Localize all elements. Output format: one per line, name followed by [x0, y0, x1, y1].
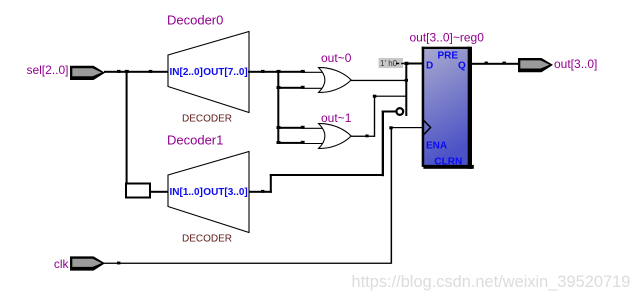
wire tick	[261, 190, 264, 193]
svg-text:out[3..0]~reg0: out[3..0]~reg0	[410, 31, 485, 45]
decoder U Decoder1	[168, 152, 249, 233]
wire out~1 top segment	[374, 96, 407, 97]
wire sel branch vertical	[126, 71, 128, 184]
svg-text:DECODER: DECODER	[182, 114, 232, 125]
wire sel to Decoder0	[104, 71, 168, 73]
junction branch3	[277, 126, 281, 129]
wire branch OR2 in2	[277, 142, 304, 144]
wire clk horizontal	[104, 263, 392, 264]
junction trunk top	[277, 70, 281, 73]
svg-text:IN[2..0]: IN[2..0]	[170, 67, 203, 78]
wire box to Decoder1	[151, 191, 168, 193]
wire clk to wedge	[390, 127, 423, 128]
svg-text:clk: clk	[54, 257, 70, 271]
wire out~1 riser	[374, 96, 375, 137]
svg-text:PRE: PRE	[438, 50, 459, 61]
constant 1'h0	[379, 58, 404, 68]
svg-text:ENA: ENA	[426, 140, 447, 151]
svg-text:1' h0: 1' h0	[380, 59, 398, 68]
svg-text:https://blog.csdn.net/weixin_3: https://blog.csdn.net/weixin_39520719	[352, 273, 631, 291]
bus merge ring	[396, 108, 403, 115]
input pin clk	[70, 256, 105, 270]
svg-text:out[3..0]: out[3..0]	[554, 57, 597, 71]
input pin sel[2..0]	[70, 66, 105, 80]
junction out~1 corner	[373, 95, 377, 98]
wire tick	[117, 262, 120, 265]
bus D wire to register	[405, 63, 422, 65]
bus horizontal to ring	[382, 111, 397, 113]
bus Decoder1 out riser	[382, 111, 384, 177]
svg-text:Q: Q	[458, 60, 466, 71]
junction clk corner	[389, 126, 392, 129]
wire branch OR2 in1	[277, 127, 304, 129]
junction D corner	[405, 62, 409, 65]
wire tick	[261, 70, 265, 73]
svg-text:OUT[7..0]: OUT[7..0]	[203, 67, 247, 78]
junction sel branch	[125, 70, 129, 73]
bus thick horizontal from Decoder1	[270, 174, 384, 176]
pin square OR1 in1	[301, 70, 305, 73]
wire clk riser	[391, 127, 393, 264]
wire out~0 to D trunk	[351, 80, 407, 81]
bus corner vertical	[270, 174, 272, 193]
output pin out[3..0]	[518, 58, 553, 72]
wire Q output	[471, 63, 519, 65]
svg-text:out~0: out~0	[321, 51, 352, 65]
or-gate out~0	[304, 68, 351, 93]
pin square OR2 in2	[301, 141, 305, 144]
wire out~1 segment	[351, 136, 375, 137]
register out[3..0]~reg0	[422, 47, 474, 169]
bus D trunk vertical	[405, 63, 407, 117]
svg-text:sel[2..0]: sel[2..0]	[26, 63, 68, 77]
wire tick	[485, 62, 488, 65]
svg-text:out~1: out~1	[321, 111, 352, 125]
dashed constant connection	[396, 63, 406, 65]
svg-text:OUT[3..0]: OUT[3..0]	[203, 187, 247, 198]
svg-text:CLRN: CLRN	[434, 156, 462, 167]
decoder U Decoder0	[168, 32, 249, 113]
svg-text:IN[1..0]: IN[1..0]	[170, 187, 203, 198]
or-gate out~1	[304, 124, 351, 149]
wire tick	[503, 62, 506, 65]
svg-text:DECODER: DECODER	[182, 234, 232, 245]
pin square OR1 in2	[301, 86, 305, 89]
wire Decoder0 out to OR inputs	[248, 71, 305, 73]
junction out~0 trunk	[405, 79, 408, 82]
wire tick	[117, 70, 121, 73]
junction branch4	[277, 141, 281, 144]
wire tick out~1	[365, 135, 368, 138]
junction branch2	[277, 86, 281, 89]
svg-text:D: D	[426, 60, 433, 71]
wire branch OR1 in2	[277, 87, 304, 89]
pin square OR2 in1	[301, 126, 305, 129]
wire trunk vertical	[277, 71, 279, 144]
wire Decoder1 output	[248, 191, 272, 193]
bus slice box	[126, 184, 150, 198]
clock wedge	[424, 121, 431, 135]
svg-text:Decoder0: Decoder0	[167, 13, 223, 28]
wire tick	[149, 70, 153, 73]
svg-text:Decoder1: Decoder1	[167, 133, 223, 148]
